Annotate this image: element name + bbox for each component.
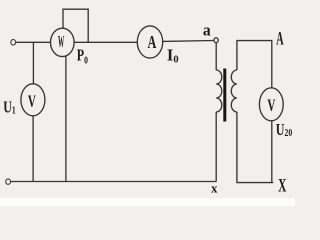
ammeter A body: [137, 26, 162, 58]
wire: secondary bottom lead to terminal X corner: [237, 112, 273, 183]
wire: secondary top lead to terminal A corner: [237, 41, 272, 89]
wire: top-left terminal to wattmeter: [16, 41, 51, 43]
wire: node a down to primary winding: [215, 43, 217, 70]
wattmeter W body: [51, 28, 75, 56]
transformer core bar: [223, 69, 226, 122]
svg-text:A: A: [276, 30, 284, 50]
svg-text:V: V: [267, 96, 275, 115]
terminal (bottom-left input): [6, 179, 11, 184]
wire: wattmeter bottom lead down to bottom rail: [65, 57, 67, 182]
svg-text:X: X: [278, 176, 286, 196]
wire: ammeter to node a: [163, 40, 214, 43]
svg-text:x: x: [211, 180, 218, 195]
svg-text:V: V: [28, 92, 36, 111]
svg-text:W: W: [58, 32, 65, 51]
wire: bottom rail: [11, 181, 217, 183]
svg-text:A: A: [147, 34, 156, 53]
wire: U1 voltmeter branch (upper): [32, 42, 34, 84]
terminal (top-left input): [11, 40, 16, 45]
transformer secondary winding (3 bumps bulging left): [231, 70, 237, 112]
wire: U1 voltmeter branch (lower): [32, 116, 34, 182]
wattmeter U-W voltage-coil loop wire: [63, 9, 88, 42]
voltmeter U20 body: [259, 88, 283, 121]
svg-text:a: a: [203, 20, 211, 40]
transformer primary winding (3 bumps bulging right): [216, 70, 222, 112]
voltmeter U1 body: [21, 84, 45, 116]
wire: primary winding down to node x: [215, 112, 217, 182]
wire: wattmeter to ammeter: [74, 41, 137, 43]
node a terminal circle: [214, 38, 218, 43]
